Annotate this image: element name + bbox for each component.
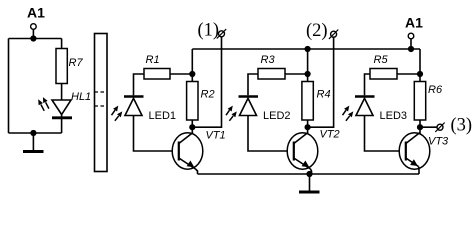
svg-text:A1: A1 — [405, 15, 423, 31]
wire LED3 top to R5 — [365, 74, 371, 95]
wire collector vertical into VT1 — [191, 127, 193, 134]
svg-text:HL1: HL1 — [71, 91, 91, 103]
HL1 light arrows (emitting, up-left) — [38, 97, 49, 111]
wire A1 terminal stub — [32, 29, 34, 38]
optical slot plate — [95, 34, 108, 172]
terminal (1) slashed circle — [217, 29, 226, 38]
wire R1 to node X1 — [170, 73, 192, 75]
resistor R3 — [258, 69, 285, 80]
svg-text:R4: R4 — [317, 89, 331, 101]
resistor R6 — [414, 82, 425, 121]
wire R4 top lead — [307, 74, 309, 82]
junction collector VT2 — [305, 124, 311, 130]
wire R2 top lead — [191, 74, 193, 82]
junction node X1 — [189, 71, 195, 77]
wire collector to terminal 2 — [308, 37, 334, 127]
transistor VT2 (NPN) — [287, 133, 318, 175]
wire LED2 bottom to VT2 base — [248, 116, 288, 152]
ground (left) — [23, 133, 44, 152]
svg-text:R1: R1 — [146, 54, 160, 66]
wire R6 top lead — [419, 74, 421, 82]
junction collector VT1 — [189, 124, 195, 130]
junction ground-middle — [306, 171, 312, 177]
wire bottom emitter rail — [198, 173, 420, 175]
junction A1-right on rail — [408, 46, 414, 52]
junction ground-left — [30, 130, 36, 136]
wire A1 right stub — [410, 39, 412, 49]
photodiode LED2 (triangle up, bar top) — [239, 97, 259, 116]
resistor R7 — [56, 49, 67, 84]
svg-text:R3: R3 — [261, 54, 276, 66]
wire rail corner down to node X3 — [419, 49, 421, 74]
svg-text:VT3: VT3 — [428, 136, 449, 148]
wire left loop top rail — [9, 38, 62, 40]
svg-text:VT1: VT1 — [206, 130, 226, 142]
junction node X3 — [417, 71, 423, 77]
wire R3 to node X2 — [285, 73, 308, 75]
wire collector vertical into VT2 — [307, 127, 309, 134]
svg-text:(1): (1) — [198, 21, 220, 41]
transistor VT3 (NPN) — [399, 133, 430, 175]
photodiode LED1 (triangle up, bar top) — [124, 97, 144, 116]
wire left loop left side — [8, 39, 10, 134]
wire R4 bottom lead — [307, 120, 309, 127]
wire LED2 top to R3 — [248, 74, 258, 95]
photodiode LED3 (triangle up, bar top) — [355, 97, 375, 116]
terminal A1 right (circle) — [408, 33, 414, 39]
svg-text:A1: A1 — [27, 5, 45, 21]
wire LED3 bottom to VT3 base — [365, 116, 400, 152]
resistor R5 — [370, 69, 397, 80]
svg-text:R6: R6 — [428, 84, 443, 96]
terminal A1 left (circle) — [31, 24, 37, 30]
LED2 light arrows (receiving, up-right) — [226, 106, 237, 121]
svg-text:LED1: LED1 — [149, 110, 177, 122]
wire R6 bottom lead — [419, 120, 421, 127]
junction rail X2 — [305, 46, 311, 52]
resistor R1 — [144, 69, 170, 80]
wire node X1 up to rail — [191, 49, 193, 74]
LED3 light arrows (receiving, up-right) — [343, 106, 354, 121]
LED1 light arrows (receiving, up-right) — [112, 106, 123, 121]
svg-text:R5: R5 — [374, 54, 389, 66]
LED HL1 (emitting diode, triangle down) — [52, 100, 72, 118]
wire LED1 bottom to VT1 base — [134, 116, 173, 152]
wire left loop bottom rail — [9, 132, 62, 134]
svg-text:R2: R2 — [201, 89, 215, 101]
svg-text:(2): (2) — [306, 21, 328, 41]
svg-text:(3): (3) — [451, 116, 473, 136]
junction node X2 — [305, 71, 311, 77]
junction A1-left — [30, 35, 36, 41]
wire R5 to node X3 — [397, 73, 420, 75]
wire collector to terminal 1 — [192, 37, 221, 127]
wire R7 top lead — [61, 39, 63, 49]
svg-text:VT2: VT2 — [320, 129, 340, 141]
terminal (2) slashed circle — [329, 30, 338, 39]
svg-text:LED2: LED2 — [263, 110, 291, 122]
junction collector VT3 — [417, 124, 423, 130]
wire R2 bottom lead — [191, 120, 193, 127]
terminal (3) slashed circle — [435, 123, 444, 132]
wire collector vertical into VT3 — [419, 127, 421, 134]
wire top supply rail — [192, 48, 420, 50]
wire R7 bottom lead — [61, 84, 63, 101]
wire LED1 top to R1 — [134, 74, 145, 95]
ground (middle) — [299, 174, 320, 192]
transistor VT1 (NPN) — [172, 133, 203, 175]
svg-text:R7: R7 — [69, 57, 84, 69]
wire HL1 bottom lead — [61, 115, 63, 134]
resistor R4 — [302, 82, 313, 121]
svg-text:LED3: LED3 — [380, 110, 408, 122]
wire node X2 up to rail — [307, 49, 309, 74]
resistor R2 — [187, 82, 198, 121]
wire collector to terminal 3 — [420, 126, 437, 128]
